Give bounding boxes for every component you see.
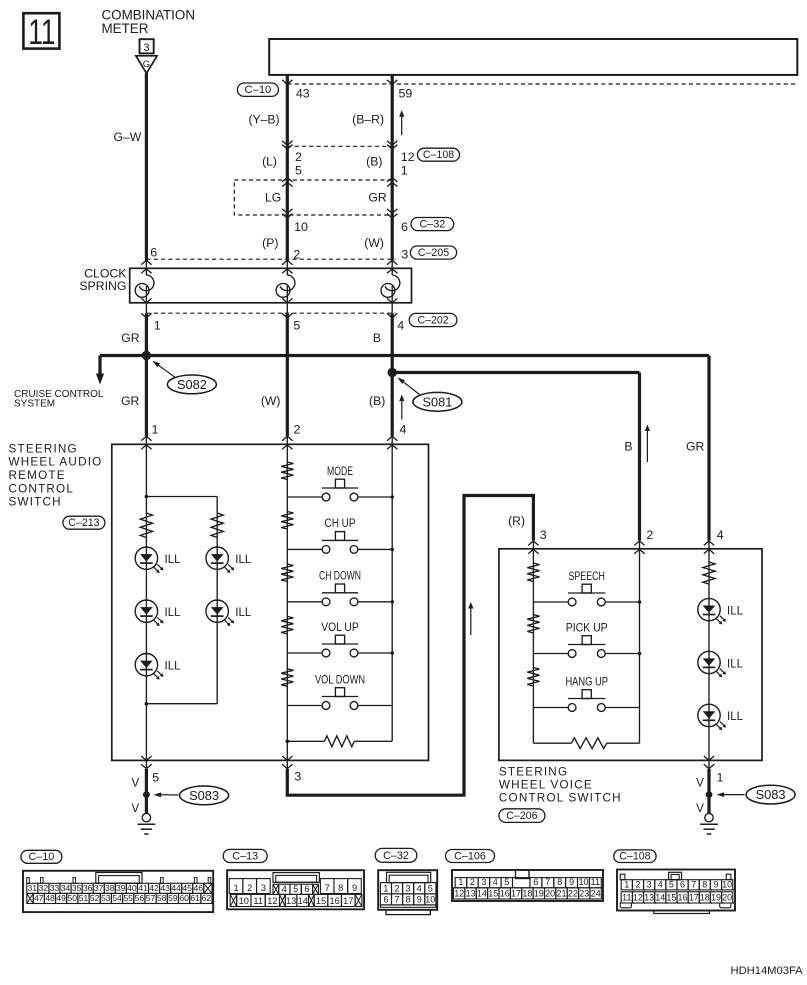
- svg-text:9: 9: [352, 883, 357, 893]
- svg-text:CH UP: CH UP: [325, 516, 356, 530]
- svg-text:5: 5: [293, 319, 300, 333]
- svg-text:2: 2: [247, 883, 252, 893]
- svg-text:C–205: C–205: [418, 247, 449, 259]
- svg-text:B: B: [624, 439, 632, 453]
- svg-text:9: 9: [713, 879, 718, 889]
- svg-text:14: 14: [298, 896, 308, 906]
- svg-text:ILL: ILL: [727, 658, 744, 670]
- LG-GR box bottom marks wire3: [387, 209, 397, 218]
- svg-text:S081: S081: [422, 394, 452, 409]
- pin 6 label C-205 wire1: [150, 245, 157, 259]
- svg-text:C–32: C–32: [383, 850, 409, 862]
- svg-text:10: 10: [294, 220, 308, 234]
- voice pin 3 label: [540, 528, 547, 542]
- svg-text:39: 39: [116, 883, 126, 893]
- splice S083 label right: [717, 785, 796, 804]
- audio bottom resistor row: [286, 736, 393, 747]
- svg-text:52: 52: [90, 893, 100, 903]
- svg-text:ILL: ILL: [235, 607, 252, 619]
- splice S082 label: [153, 361, 217, 394]
- pin 4 label C-202: [397, 319, 404, 333]
- svg-text:6: 6: [401, 220, 408, 234]
- svg-text:2: 2: [395, 883, 400, 893]
- wire voice pin1 to ground: [707, 769, 710, 813]
- svg-text:G–W: G–W: [114, 130, 142, 144]
- svg-text:3: 3: [406, 883, 411, 893]
- resistor above MODE: [281, 462, 293, 480]
- junction S083 dot right: [706, 791, 713, 798]
- wire code (P): [262, 236, 278, 250]
- C-108 terminal marks wire3: [387, 141, 397, 149]
- svg-text:17: 17: [343, 896, 353, 906]
- audio ill loop top: [145, 495, 218, 499]
- svg-text:43: 43: [296, 86, 310, 100]
- svg-text:17: 17: [511, 888, 521, 898]
- svg-text:59: 59: [168, 893, 178, 903]
- svg-text:42: 42: [149, 883, 159, 893]
- C-10 terminal mark pin 59: [387, 80, 397, 84]
- connector C-32 label top: [411, 218, 454, 231]
- svg-text:5: 5: [669, 879, 674, 889]
- resistor above CH UP: [281, 512, 293, 530]
- svg-text:S083: S083: [189, 788, 219, 803]
- svg-text:6: 6: [304, 884, 309, 894]
- V mark lower right: [696, 803, 704, 815]
- voice left column wire: [532, 549, 534, 743]
- svg-text:12: 12: [633, 892, 643, 902]
- svg-text:43: 43: [160, 883, 170, 893]
- audio switch pin 4 label: [400, 423, 407, 437]
- audio switch box: [112, 444, 429, 760]
- svg-text:4: 4: [417, 883, 422, 893]
- connector C-202 dashed line: [146, 312, 395, 314]
- svg-text:11: 11: [622, 892, 631, 902]
- svg-text:2: 2: [295, 150, 302, 164]
- svg-text:5: 5: [295, 163, 302, 177]
- svg-text:HANG UP: HANG UP: [565, 674, 608, 688]
- svg-text:20: 20: [545, 888, 555, 898]
- audio right column wire: [391, 444, 393, 741]
- svg-text:(W): (W): [261, 394, 281, 408]
- connector C-108 dashed line: [287, 145, 392, 147]
- svg-text:V: V: [696, 803, 704, 815]
- svg-text:6: 6: [680, 879, 685, 889]
- audio pin 3 label: [294, 770, 301, 784]
- V mark upper right: [696, 778, 704, 790]
- svg-text:46: 46: [194, 883, 204, 893]
- current arrow R wire: [468, 602, 473, 635]
- audio switch pin 2 label: [294, 423, 301, 437]
- voice switch box: [499, 549, 762, 761]
- svg-text:18: 18: [522, 888, 532, 898]
- connector C-202 label: [409, 313, 457, 326]
- svg-text:17: 17: [689, 892, 699, 902]
- svg-text:METER: METER: [102, 21, 149, 36]
- svg-text:ILL: ILL: [165, 554, 182, 566]
- LED ILL 8: [698, 704, 744, 730]
- svg-text:V: V: [696, 778, 704, 790]
- svg-text:2: 2: [470, 877, 475, 887]
- svg-text:WHEEL VOICE: WHEEL VOICE: [499, 779, 593, 792]
- svg-text:51: 51: [79, 893, 89, 903]
- wire code B voice: [624, 439, 632, 453]
- svg-text:12: 12: [454, 888, 464, 898]
- svg-text:4: 4: [658, 879, 663, 889]
- svg-text:14: 14: [655, 892, 665, 902]
- svg-text:C–213: C–213: [68, 517, 99, 529]
- svg-text:(L): (L): [262, 155, 277, 169]
- svg-text:C–10: C–10: [245, 84, 272, 96]
- svg-text:7: 7: [395, 894, 400, 904]
- svg-text:WHEEL AUDIO: WHEEL AUDIO: [9, 456, 103, 469]
- svg-text:SWITCH: SWITCH: [9, 496, 62, 509]
- resistor above VOL UP: [281, 616, 293, 634]
- wire GR illumination feed: [100, 356, 709, 541]
- svg-text:20: 20: [722, 892, 732, 902]
- svg-text:3: 3: [261, 883, 266, 893]
- svg-text:STEERING: STEERING: [499, 766, 568, 779]
- audio ill loop right branch: [216, 497, 218, 704]
- svg-text:41: 41: [138, 883, 148, 893]
- connector C-108 label top: [418, 148, 460, 161]
- svg-text:4: 4: [282, 884, 287, 894]
- svg-text:34: 34: [61, 883, 71, 893]
- C-10 terminal mark pin 43: [282, 80, 292, 84]
- switch CH DOWN: [287, 569, 392, 606]
- svg-text:1: 1: [624, 879, 629, 889]
- voice entry marks pin3: [528, 541, 538, 554]
- current arrow wire3: [399, 395, 404, 420]
- wire3 clock spring to audio switch: [391, 313, 394, 436]
- steering wheel audio switch label: [9, 442, 103, 508]
- audio switch entry marks pin4: [387, 436, 397, 449]
- svg-text:9: 9: [417, 894, 422, 904]
- svg-text:18: 18: [700, 892, 710, 902]
- svg-text:G: G: [143, 59, 150, 70]
- svg-text:(Y–B): (Y–B): [248, 112, 279, 126]
- connector C-205 dashed line: [146, 258, 395, 260]
- clock spring box: [130, 268, 412, 303]
- switch HANG UP: [533, 674, 639, 711]
- svg-text:50: 50: [68, 893, 78, 903]
- splice S081 label: [398, 378, 462, 412]
- svg-text:13: 13: [466, 888, 476, 898]
- switch PICK UP: [533, 620, 639, 657]
- LG-GR box top marks wire2: [282, 178, 292, 187]
- svg-text:2: 2: [294, 423, 301, 437]
- svg-text:21: 21: [556, 888, 566, 898]
- audio switch entry marks pin2: [282, 436, 292, 449]
- svg-text:33: 33: [50, 883, 60, 893]
- svg-text:GR: GR: [121, 394, 139, 408]
- svg-text:58: 58: [157, 893, 167, 903]
- svg-text:ILL: ILL: [727, 605, 744, 617]
- drawing code: [731, 965, 804, 977]
- svg-text:48: 48: [45, 893, 55, 903]
- audio ladder junction dots: [390, 495, 394, 655]
- connector C-13 pinout: [223, 849, 364, 909]
- svg-text:11: 11: [28, 12, 55, 52]
- splice S083 label left: [154, 786, 229, 805]
- svg-text:19: 19: [534, 888, 544, 898]
- connector C-10 label: [237, 83, 278, 96]
- pin 6 label C-32: [401, 220, 408, 234]
- svg-text:15: 15: [488, 888, 498, 898]
- clock spring entry stubs: [146, 260, 392, 268]
- svg-text:16: 16: [677, 892, 687, 902]
- svg-text:V: V: [132, 778, 140, 790]
- svg-text:24: 24: [591, 888, 601, 898]
- C-205 terminal marks: [141, 260, 397, 264]
- connector C-106 pinout: [446, 850, 604, 902]
- svg-text:16: 16: [500, 888, 510, 898]
- svg-text:C–32: C–32: [419, 218, 445, 230]
- svg-text:3: 3: [144, 42, 150, 54]
- svg-text:40: 40: [127, 883, 137, 893]
- svg-text:(P): (P): [262, 236, 278, 250]
- clock spring label: [79, 266, 127, 293]
- svg-text:GR: GR: [121, 331, 139, 345]
- svg-text:12: 12: [267, 896, 277, 906]
- svg-text:6: 6: [383, 894, 388, 904]
- LED ILL 2: [206, 547, 252, 573]
- wire code GR above audio switch: [121, 394, 139, 408]
- svg-text:62: 62: [202, 893, 212, 903]
- svg-text:53: 53: [101, 893, 111, 903]
- svg-text:60: 60: [179, 893, 189, 903]
- svg-text:REMOTE: REMOTE: [9, 469, 66, 482]
- switch VOL DOWN: [287, 672, 392, 709]
- wire code (B) above audio switch: [369, 394, 385, 408]
- svg-text:56: 56: [135, 893, 145, 903]
- svg-text:5: 5: [293, 884, 298, 894]
- connector C-206 label: [499, 809, 545, 823]
- svg-text:6: 6: [150, 245, 157, 259]
- wire1 clock spring to audio switch: [145, 313, 148, 436]
- clock spring coil 3: [381, 268, 400, 303]
- svg-text:VOL UP: VOL UP: [321, 620, 359, 634]
- V mark upper left: [132, 778, 140, 790]
- svg-text:1: 1: [401, 163, 408, 177]
- cruise control branch arrow: [96, 356, 104, 385]
- audio pin 5 label: [152, 770, 159, 784]
- svg-text:STEERING: STEERING: [9, 442, 78, 455]
- audio ill wire pin1: [145, 444, 147, 760]
- svg-text:13: 13: [286, 896, 296, 906]
- connector C-205 label: [410, 246, 456, 259]
- svg-text:10: 10: [578, 877, 588, 887]
- svg-text:7: 7: [325, 883, 330, 893]
- wire from pin 43: [286, 75, 289, 261]
- resistor above HANG UP: [527, 668, 539, 687]
- wire G-W from combination meter: [114, 73, 147, 260]
- svg-text:5: 5: [504, 877, 509, 887]
- wire2 clock spring to audio switch: [286, 313, 289, 436]
- voice ladder junction dots: [638, 600, 642, 655]
- connector C-10 dashed line: [287, 83, 797, 85]
- voice entry marks pin2: [634, 541, 644, 554]
- svg-text:ILL: ILL: [235, 554, 252, 566]
- svg-text:1: 1: [234, 883, 239, 893]
- LG-GR box bottom marks wire2: [282, 209, 292, 218]
- combination meter label: [102, 8, 196, 37]
- svg-text:C–206: C–206: [506, 810, 537, 822]
- svg-text:54: 54: [112, 893, 122, 903]
- pin 59 label: [399, 87, 413, 101]
- svg-text:49: 49: [56, 893, 66, 903]
- svg-text:11: 11: [591, 877, 600, 887]
- audio exit marks pin3: [282, 756, 292, 769]
- svg-text:C–13: C–13: [232, 850, 258, 862]
- LED ILL 3: [135, 600, 181, 626]
- switch MODE: [287, 464, 392, 501]
- svg-text:12: 12: [401, 150, 415, 164]
- svg-text:ILL: ILL: [727, 711, 744, 723]
- svg-text:16: 16: [329, 896, 339, 906]
- wire code GR: [368, 190, 386, 204]
- svg-text:ILL: ILL: [165, 607, 182, 619]
- svg-text:GR: GR: [368, 190, 386, 204]
- svg-text:4: 4: [397, 319, 404, 333]
- switch VOL UP: [287, 620, 392, 657]
- wire code LG: [265, 190, 281, 204]
- wire code B below C-202: [373, 331, 381, 345]
- svg-text:32: 32: [39, 883, 49, 893]
- wire code (Y-B): [248, 112, 279, 126]
- audio ill loop bottom: [145, 702, 218, 706]
- svg-text:8: 8: [338, 883, 343, 893]
- svg-text:S082: S082: [177, 377, 207, 392]
- voice ill column wire: [708, 549, 710, 761]
- svg-text:1: 1: [717, 770, 724, 784]
- svg-text:5: 5: [152, 770, 159, 784]
- connector C-213 label: [63, 516, 105, 529]
- svg-text:14: 14: [477, 888, 487, 898]
- ground symbol left: [138, 795, 156, 834]
- audio exit marks pin5: [141, 756, 151, 769]
- connector C-10 pinout: [21, 850, 213, 912]
- resistor right ill: [211, 513, 223, 538]
- LED ILL 5: [135, 654, 181, 680]
- LED ILL 4: [206, 600, 252, 626]
- resistor above VOL DOWN: [281, 669, 293, 687]
- wire code (W) above audio switch: [261, 394, 281, 408]
- svg-text:C–108: C–108: [619, 850, 650, 862]
- svg-text:VOL DOWN: VOL DOWN: [315, 672, 365, 686]
- pin 3 label C-205: [401, 248, 408, 262]
- wire pin5 to ground: [145, 769, 148, 813]
- svg-text:(W): (W): [364, 236, 384, 250]
- switch SPEECH: [533, 569, 639, 606]
- combination meter pin 3 box: [140, 39, 154, 54]
- junction S083 dot left: [143, 791, 150, 798]
- wire code (L): [262, 155, 277, 169]
- svg-text:3: 3: [540, 528, 547, 542]
- svg-text:C–108: C–108: [423, 149, 454, 161]
- svg-text:HDH14M03FA: HDH14M03FA: [731, 965, 804, 977]
- clock spring exit marks: [141, 298, 397, 302]
- clock spring exit stubs: [146, 303, 392, 313]
- audio switch pin 1 label: [152, 423, 159, 437]
- svg-text:55: 55: [123, 893, 133, 903]
- svg-text:8: 8: [557, 877, 562, 887]
- connector C-32 pinout: [375, 848, 437, 914]
- svg-text:22: 22: [568, 888, 578, 898]
- svg-text:7: 7: [691, 879, 696, 889]
- svg-text:6: 6: [533, 877, 538, 887]
- upper component box (off-page): [269, 39, 797, 75]
- svg-text:59: 59: [399, 87, 413, 101]
- wire code (B-R): [352, 112, 384, 126]
- svg-text:(B): (B): [366, 155, 382, 169]
- svg-text:S083: S083: [756, 787, 786, 802]
- wire code GR below C-202: [121, 331, 139, 345]
- svg-text:V: V: [132, 803, 140, 815]
- svg-text:C–10: C–10: [28, 851, 54, 863]
- svg-text:44: 44: [171, 883, 181, 893]
- svg-text:5: 5: [428, 883, 433, 893]
- pin 1 label C-202: [154, 319, 161, 333]
- C-108 terminal marks wire2: [282, 141, 292, 149]
- svg-text:35: 35: [72, 883, 82, 893]
- switch CH UP: [287, 516, 392, 553]
- svg-text:10: 10: [722, 879, 732, 889]
- wire from pin 59: [391, 75, 394, 261]
- svg-text:37: 37: [94, 883, 104, 893]
- svg-text:PICK UP: PICK UP: [566, 620, 608, 634]
- pin 2 label C-205: [293, 248, 300, 262]
- svg-text:45: 45: [182, 883, 192, 893]
- resistor above PICK UP: [527, 615, 539, 633]
- ground symbol right: [700, 795, 718, 834]
- svg-text:10: 10: [239, 896, 249, 906]
- LED ILL 1: [135, 547, 181, 573]
- svg-text:1: 1: [152, 423, 159, 437]
- LG-GR box top marks wire3: [387, 178, 397, 187]
- svg-text:3: 3: [401, 248, 408, 262]
- svg-text:SYSTEM: SYSTEM: [14, 399, 55, 410]
- LED ILL 6: [698, 598, 744, 624]
- wire code (W): [364, 236, 384, 250]
- current direction arrow near 59: [399, 110, 404, 135]
- C-202 terminal marks: [141, 313, 397, 317]
- wire code (B): [366, 155, 382, 169]
- svg-text:MODE: MODE: [327, 464, 353, 478]
- resistor left ill: [140, 513, 152, 538]
- pin 1 label: [401, 163, 408, 177]
- connector triangle G: [136, 56, 157, 74]
- resistor voice ill: [703, 562, 715, 584]
- svg-text:19: 19: [711, 892, 721, 902]
- svg-text:C–106: C–106: [454, 850, 486, 862]
- clock spring coil 1: [135, 268, 154, 303]
- pin 5 label: [295, 163, 302, 177]
- voice pin 1 label: [717, 770, 724, 784]
- svg-text:SPRING: SPRING: [79, 279, 126, 293]
- svg-text:38: 38: [105, 883, 115, 893]
- svg-text:10: 10: [425, 894, 435, 904]
- voice bottom resistor row: [533, 738, 639, 749]
- svg-text:15: 15: [666, 892, 676, 902]
- svg-text:1: 1: [154, 319, 161, 333]
- voice exit marks pin1: [704, 756, 714, 769]
- svg-text:GR: GR: [686, 439, 704, 453]
- wire B feed to voice switch: [392, 373, 639, 541]
- svg-text:1: 1: [458, 877, 463, 887]
- page number box 11: [23, 12, 59, 52]
- pin 5 label C-202: [293, 319, 300, 333]
- svg-text:4: 4: [400, 423, 407, 437]
